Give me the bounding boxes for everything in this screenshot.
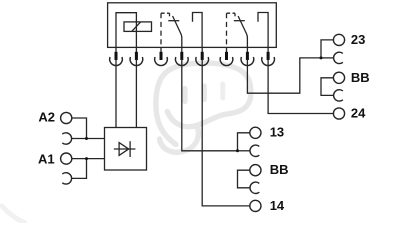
socket arc T8	[262, 57, 275, 66]
pin T5	[201, 52, 204, 60]
terminal 24 circle	[333, 108, 344, 119]
diode triangle	[119, 143, 129, 156]
junction node 13	[236, 149, 239, 152]
relay coil K1	[124, 22, 152, 32]
svg-text:13: 13	[270, 125, 284, 140]
wire A1 arc riser	[72, 159, 87, 179]
socket arc T3	[155, 57, 168, 66]
watermark bar 2	[202, 86, 207, 100]
diode D1	[114, 141, 135, 157]
wire T5 to node 14	[202, 59, 250, 206]
socket arc A1	[62, 173, 71, 184]
svg-text:14: 14	[270, 198, 285, 213]
terminal pins row	[115, 52, 270, 60]
pin T8	[267, 52, 270, 60]
wire arc13 to junction	[238, 150, 250, 152]
contact 1 mechanical link (dashed)	[160, 13, 162, 47]
junction node A2	[85, 137, 88, 140]
terminal BB bottom circle	[250, 165, 261, 176]
wire stub T6	[226, 47, 228, 52]
contact 1 NO hook	[193, 13, 203, 48]
bracket 13	[238, 133, 250, 151]
wire T4 to node 13	[182, 59, 238, 151]
pin T1	[115, 52, 118, 60]
socket arc T2	[130, 57, 143, 66]
socket arc 23	[334, 52, 343, 63]
socket arc T7	[241, 57, 254, 66]
wire stub T7	[246, 47, 248, 52]
pin T6	[225, 52, 228, 60]
diode anode-cathode line	[114, 148, 135, 150]
bracket 23	[321, 40, 334, 58]
wire T1 to rectifier	[115, 59, 117, 127]
junction node 23	[320, 56, 323, 59]
junction node A1	[85, 157, 88, 160]
contact 1 lever	[173, 16, 182, 47]
wire stub T4	[181, 47, 183, 52]
contact 2 pivot stub	[234, 13, 236, 16]
socket arc T4	[175, 57, 188, 66]
contact 1 pivot stub	[169, 13, 171, 16]
terminal BB top circle	[333, 72, 344, 83]
pin T7	[246, 52, 249, 60]
watermark mouth stroke	[167, 112, 230, 127]
contact 1 fixed bar	[168, 20, 179, 22]
svg-text:BB: BB	[351, 70, 370, 85]
svg-text:A2: A2	[38, 109, 55, 124]
watermark logo	[2, 63, 251, 223]
wire A2 to junction	[72, 118, 87, 139]
watermark bar 1	[182, 89, 187, 102]
rectifier block	[105, 128, 147, 171]
wire arc23 to junction	[321, 57, 334, 59]
coil diagonal	[132, 22, 141, 32]
svg-text:A1: A1	[38, 151, 55, 166]
wire T8 to node 24	[268, 59, 333, 113]
socket arc 13	[250, 145, 259, 156]
contact 2 lever	[238, 16, 247, 47]
socket arc T5	[196, 57, 209, 66]
contact 2 NO hook	[258, 13, 268, 48]
pin T4	[180, 52, 183, 60]
terminal 23 circle	[333, 34, 344, 45]
socket arc T6	[220, 57, 233, 66]
wire T2 to rectifier	[135, 59, 137, 127]
socket arc BB top	[334, 90, 343, 101]
pin T3	[160, 52, 163, 60]
socket arc A2	[62, 133, 71, 144]
watermark ring	[156, 63, 251, 144]
pin T2	[135, 52, 138, 60]
watermark tail curl	[160, 126, 199, 152]
wire stub T1	[115, 47, 117, 52]
bracket BB top	[321, 78, 334, 96]
wire stub T8	[267, 47, 269, 52]
bracket BB bottom	[238, 170, 250, 188]
wire coil loop left	[116, 13, 136, 48]
wire A2 arc to rectifier	[72, 138, 105, 140]
watermark bar 3	[220, 84, 225, 98]
pin link stubs from box	[116, 47, 268, 52]
terminal 14 circle	[250, 200, 261, 211]
terminal socket arcs	[110, 57, 275, 66]
svg-text:23: 23	[351, 32, 365, 47]
terminal A1 circle	[61, 153, 72, 164]
socket arc T1	[110, 57, 123, 66]
wire stub T3	[160, 47, 162, 52]
svg-text:24: 24	[351, 106, 366, 121]
wire T7 to node 23	[247, 58, 321, 93]
contact 2 fixed bar	[234, 20, 245, 22]
socket arc BB bottom	[250, 182, 259, 193]
terminal A2 circle	[61, 112, 72, 123]
watermark corner streak	[2, 206, 25, 223]
contact 2 mechanical link (dashed)	[226, 13, 228, 47]
diode cathode bar	[129, 141, 131, 157]
wire stub T2	[135, 47, 137, 52]
terminal 13 circle	[250, 127, 261, 138]
relay module outline box	[108, 3, 277, 48]
wire A1 to rectifier	[72, 158, 105, 160]
wire stub T5	[201, 47, 203, 52]
svg-text:BB: BB	[270, 162, 289, 177]
